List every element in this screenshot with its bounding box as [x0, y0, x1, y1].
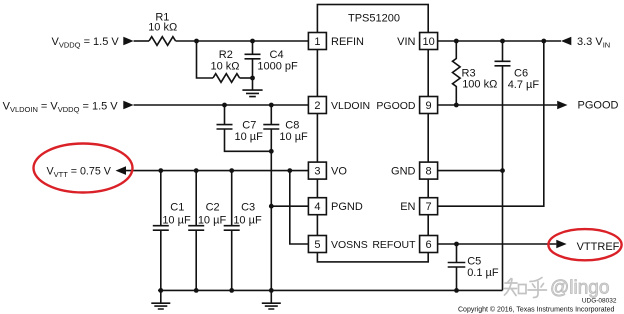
svg-text:VVDDQ = 1.5 V: VVDDQ = 1.5 V	[52, 36, 120, 50]
svg-text:VVLDOIN = VVDDQ = 1.5 V: VVLDOIN = VVDDQ = 1.5 V	[3, 101, 119, 115]
svg-text:1000 pF: 1000 pF	[257, 61, 298, 73]
wire VO to VOSNS pin 5	[290, 171, 308, 244]
node rail C2	[194, 288, 199, 293]
svg-text:3.3 VIN: 3.3 VIN	[577, 36, 610, 50]
node C6 top	[500, 39, 505, 44]
pin 10 box	[420, 33, 438, 50]
svg-text:7: 7	[426, 201, 432, 213]
arrow VTT output	[116, 166, 127, 175]
arrow VDDQ input	[123, 37, 133, 46]
node rail C1	[158, 288, 163, 293]
node R3 bottom	[454, 103, 459, 108]
svg-text:4: 4	[314, 201, 320, 213]
label VTT = 0.75 V	[47, 166, 112, 179]
svg-text:TPS51200: TPS51200	[348, 13, 400, 25]
node rail C3	[229, 288, 234, 293]
pin 7 box	[420, 198, 438, 215]
resistor R3	[453, 41, 461, 105]
svg-text:10 kΩ: 10 kΩ	[210, 61, 239, 73]
node C7/C8 bottom junction	[269, 149, 274, 154]
svg-text:100 kΩ: 100 kΩ	[462, 79, 497, 91]
arrow 3.3 VIN input	[561, 37, 571, 46]
pin name REFIN	[331, 36, 364, 48]
svg-text:PGND: PGND	[331, 201, 363, 213]
svg-text:@lingo: @lingo	[550, 278, 609, 299]
label C3	[233, 202, 262, 227]
ground symbol center	[262, 290, 281, 309]
node PGND junction	[269, 204, 274, 209]
label R1	[148, 12, 177, 34]
capacitor C2	[188, 171, 204, 291]
svg-text:9: 9	[426, 100, 432, 112]
svg-text:EN: EN	[400, 201, 415, 213]
svg-text:Copyright © 2016, Texas Instru: Copyright © 2016, Texas Instruments Inco…	[458, 306, 614, 314]
label C2	[198, 202, 227, 227]
arrow VLDOIN input	[123, 101, 133, 110]
svg-text:10: 10	[422, 36, 434, 48]
capacitor C1	[153, 171, 169, 291]
svg-text:VVTT = 0.75 V: VVTT = 0.75 V	[47, 166, 112, 179]
wire R1 to pin 1 REFIN	[176, 40, 308, 42]
label VLDOIN = VDDQ = 1.5 V	[3, 101, 119, 115]
wire row4 right: EN pin 7 up to VIN rail	[438, 41, 544, 206]
pin 5 box	[308, 236, 326, 253]
resistor R1	[149, 37, 176, 46]
pin 8 box	[420, 162, 438, 179]
label PGOOD	[578, 100, 619, 112]
label C6	[508, 68, 540, 92]
node rail ground column	[269, 288, 274, 293]
red ellipse around VTT	[34, 144, 133, 193]
pin name EN	[400, 201, 415, 213]
label TPS51200	[348, 13, 400, 25]
label C4	[257, 49, 298, 73]
svg-text:VLDOIN: VLDOIN	[331, 100, 370, 112]
pin name VO	[331, 166, 347, 178]
pin name VOSNS	[331, 239, 368, 251]
svg-text:PGOOD: PGOOD	[376, 100, 416, 112]
capacitor C8	[263, 105, 279, 129]
bottom ground rail	[158, 289, 503, 291]
capacitor C7	[217, 105, 272, 151]
svg-text:8: 8	[426, 166, 432, 178]
watermark @lingo	[550, 278, 609, 299]
pin name GND	[391, 166, 416, 178]
svg-text:2: 2	[314, 100, 320, 112]
wire row1 right: VIN pin 10 to 3.3V input	[438, 40, 562, 42]
pin 6 box	[420, 236, 438, 253]
svg-text:10 µF: 10 µF	[162, 215, 191, 227]
svg-text:10 µF: 10 µF	[279, 131, 308, 143]
node C3 top	[229, 168, 234, 173]
svg-text:C6: C6	[514, 68, 528, 80]
label C8	[279, 120, 308, 144]
svg-text:C8: C8	[285, 120, 299, 132]
node GND/C6 junction	[500, 168, 505, 173]
svg-text:5: 5	[314, 239, 320, 251]
svg-text:UDG-08032: UDG-08032	[582, 298, 617, 305]
red ellipse around VTTREF	[548, 229, 621, 260]
watermark zhihu glyph 乎	[528, 278, 547, 298]
svg-text:C2: C2	[206, 202, 220, 214]
label R3	[462, 68, 498, 91]
wire row5 right: REFOUT pin 6 to VTTREF	[438, 243, 557, 245]
svg-text:VTTREF: VTTREF	[577, 241, 620, 253]
svg-text:REFOUT: REFOUT	[372, 239, 416, 251]
pin name VLDOIN	[331, 100, 370, 112]
svg-text:VO: VO	[331, 166, 347, 178]
pin name VIN	[397, 36, 415, 48]
node R3 top	[454, 39, 459, 44]
IC body U1 TPS51200	[317, 5, 428, 262]
svg-text:1: 1	[314, 36, 320, 48]
node rail C5	[454, 288, 459, 293]
svg-text:10 µF: 10 µF	[198, 215, 227, 227]
label copyright	[458, 306, 614, 314]
svg-text:C3: C3	[241, 202, 255, 214]
node EN column top	[541, 39, 546, 44]
svg-text:PGOOD: PGOOD	[578, 100, 619, 112]
watermark zhihu glyph 知	[505, 279, 527, 296]
node C8 top	[269, 103, 274, 108]
svg-text:3: 3	[314, 166, 320, 178]
svg-text:10 kΩ: 10 kΩ	[148, 22, 177, 34]
node C2 top	[194, 168, 199, 173]
pin name REFOUT	[372, 239, 416, 251]
label UDG-08032	[582, 298, 617, 305]
svg-text:10 µF: 10 µF	[235, 131, 264, 143]
svg-text:GND: GND	[391, 166, 416, 178]
node C5 top	[454, 242, 459, 247]
svg-text:R2: R2	[219, 49, 233, 61]
node VO/VOSNS junction	[287, 168, 292, 173]
pin 4 box	[308, 198, 326, 215]
node C7 top	[222, 103, 227, 108]
wire row3 right: GND pin 8 to C6 column	[438, 170, 503, 172]
node C4 top junction	[250, 39, 255, 44]
svg-text:4.7 µF: 4.7 µF	[508, 79, 540, 91]
label C5	[467, 256, 499, 279]
svg-text:C5: C5	[467, 256, 481, 268]
pin name PGND	[331, 201, 363, 213]
svg-text:C1: C1	[170, 202, 184, 214]
wire row2 right: PGOOD pin 9 to output	[438, 104, 558, 106]
wire junction down to R2	[197, 41, 214, 78]
ground below R2/C4	[242, 78, 262, 97]
node C1 top	[158, 168, 163, 173]
svg-text:6: 6	[426, 239, 432, 251]
arrow VTTREF output	[556, 240, 566, 249]
label C1	[162, 202, 191, 227]
svg-text:10 µF: 10 µF	[233, 215, 262, 227]
pin 1 box	[308, 33, 326, 50]
pin 3 box	[308, 162, 326, 179]
label 3.3 VIN	[577, 36, 610, 50]
svg-text:C4: C4	[270, 49, 284, 61]
pin 9 box	[420, 97, 438, 114]
svg-text:VOSNS: VOSNS	[331, 239, 368, 251]
pin name PGOOD	[376, 100, 416, 112]
wire C8 down to bottom ground rail	[270, 129, 272, 290]
wire row2: VLDOIN input to pin 2	[134, 104, 308, 106]
wire row3: VTT output to pin 3 VO	[126, 170, 308, 172]
resistor R2	[213, 74, 240, 83]
pin 2 box	[308, 97, 326, 114]
wire row4: PGND pin 4 to ground column	[271, 205, 308, 207]
svg-text:0.1 µF: 0.1 µF	[467, 267, 499, 279]
svg-text:VIN: VIN	[397, 36, 415, 48]
capacitor C4	[245, 41, 261, 78]
label VTTREF	[577, 241, 620, 253]
label C7	[235, 120, 264, 144]
label VDDQ = 1.5 V	[52, 36, 120, 50]
capacitor C5	[448, 244, 466, 290]
svg-text:REFIN: REFIN	[331, 36, 364, 48]
svg-text:C7: C7	[242, 120, 256, 132]
label R2	[210, 49, 239, 73]
arrow PGOOD output	[557, 101, 567, 110]
ground symbol left	[151, 290, 170, 309]
wire row1 left: VDDQ input to R1	[134, 40, 149, 42]
capacitor C6	[495, 41, 511, 290]
node REFIN divider junction	[194, 39, 199, 44]
capacitor C3	[224, 171, 240, 291]
node R2/C4 junction	[250, 76, 255, 81]
wire R2 to C4 bottom node	[240, 77, 253, 79]
